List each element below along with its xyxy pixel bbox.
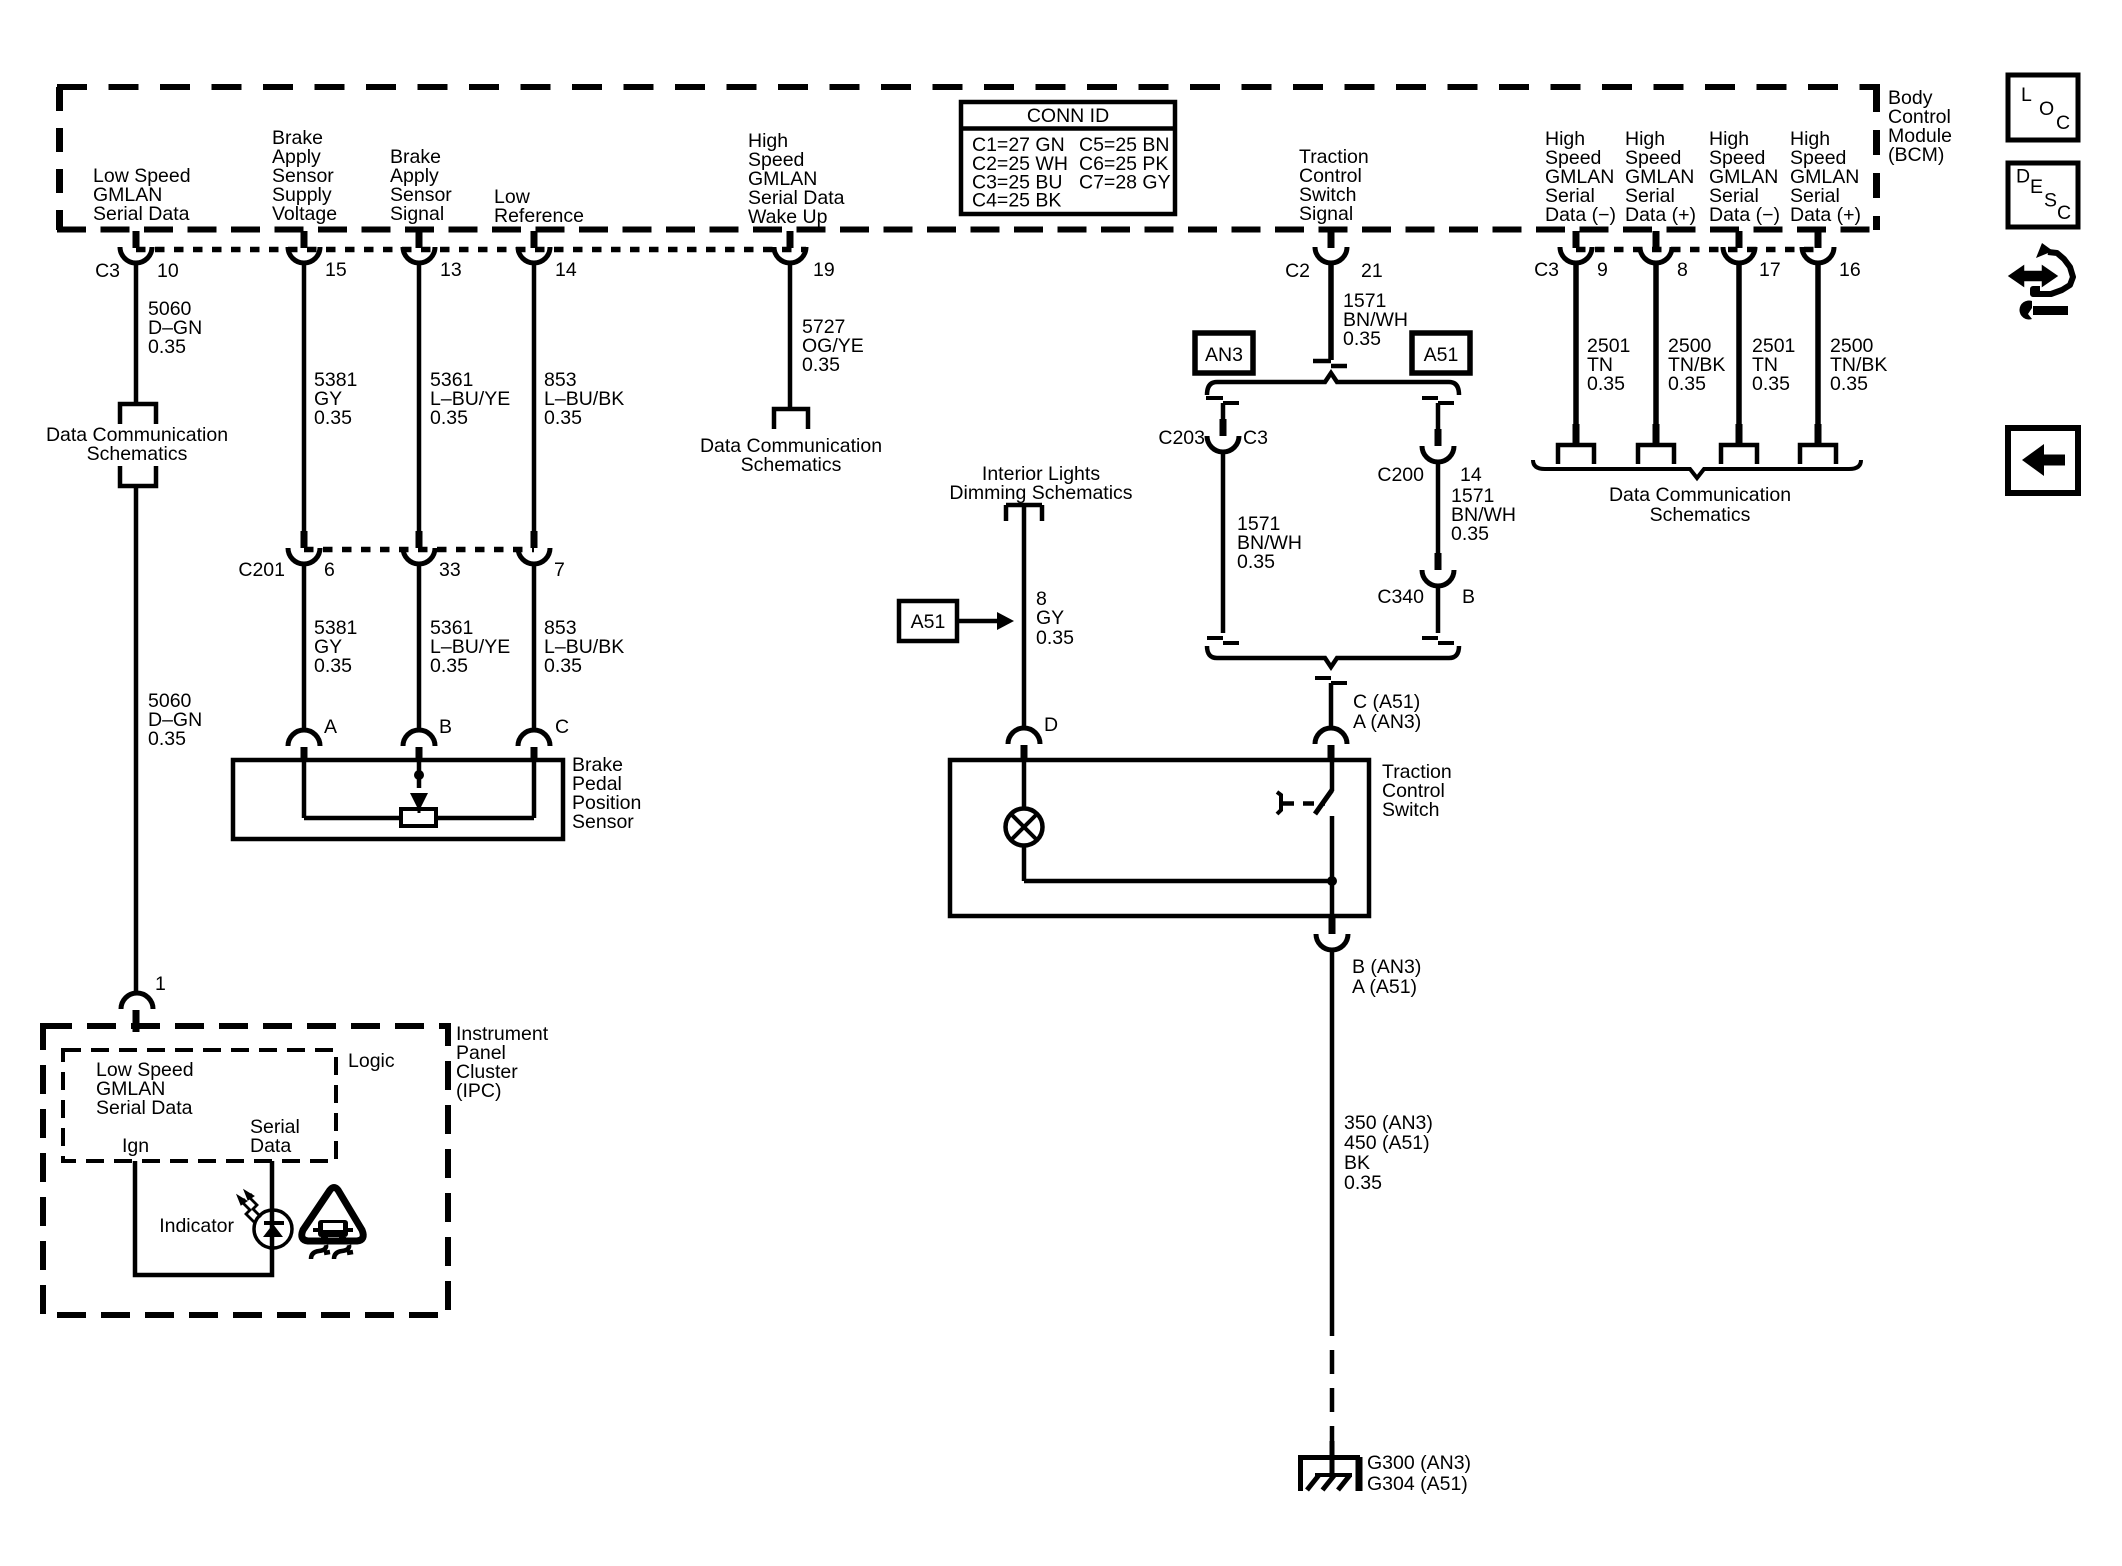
IPC logic text Low Speed GMLAN Serial Data <box>96 1059 194 1119</box>
BCM pin name: Low Reference <box>494 186 584 227</box>
svg-text:0.35: 0.35 <box>1451 523 1489 545</box>
connector pin C at BPP sensor <box>518 716 569 761</box>
wire label 5361 L-BU/YE 0.35 lower <box>430 617 510 677</box>
svg-text:Serial Data: Serial Data <box>93 203 190 225</box>
svg-text:0.35: 0.35 <box>430 407 468 429</box>
connector C201 dotted line <box>304 547 534 553</box>
svg-text:A51: A51 <box>911 611 946 633</box>
off-page bracket wire 16 <box>1800 445 1836 464</box>
TCS switch wire upper <box>1330 760 1335 791</box>
svg-text:0.35: 0.35 <box>148 336 186 358</box>
TCS switch actuator bracket <box>1277 792 1281 814</box>
ground G300 (AN3) / G304 (A51) <box>1298 1441 1471 1495</box>
connector pin 1 at IPC <box>121 973 166 1032</box>
Serial Data pin label <box>250 1116 300 1157</box>
connector C203 / C3 <box>1158 419 1268 452</box>
svg-text:B: B <box>439 716 452 738</box>
svg-text:S: S <box>2044 190 2057 212</box>
svg-text:BK: BK <box>1344 1152 1370 1174</box>
BCM pin name: Low Speed GMLAN Serial Data <box>93 165 191 225</box>
traction warning icon triangle <box>302 1188 363 1242</box>
svg-text:B (AN3): B (AN3) <box>1352 956 1421 978</box>
svg-text:0.35: 0.35 <box>544 655 582 677</box>
svg-text:Wake Up: Wake Up <box>748 206 828 228</box>
svg-text:0.35: 0.35 <box>430 655 468 677</box>
svg-text:Schematics: Schematics <box>1650 504 1751 526</box>
wire label 853 L-BU/BK 0.35 upper <box>544 369 624 429</box>
svg-text:0.35: 0.35 <box>802 354 840 376</box>
off-page bracket: Interior Lights Dimming <box>1006 505 1042 521</box>
svg-text:Signal: Signal <box>1299 203 1353 225</box>
traction warning icon skid marks <box>311 1245 353 1259</box>
traction warning icon car <box>313 1220 353 1244</box>
wire 9 terminal stub <box>1573 424 1580 446</box>
svg-text:A51: A51 <box>1424 344 1459 366</box>
svg-text:15: 15 <box>325 259 347 281</box>
connector pin D at traction control switch <box>1008 714 1058 762</box>
svg-text:10: 10 <box>157 260 179 282</box>
BCM pin name: High Speed GMLAN Serial Data (-) #2 <box>1709 128 1780 226</box>
wire 350/450 BK solid segment <box>1330 948 1335 1312</box>
splice brace lower (merge to switch) <box>1207 646 1459 667</box>
connector pin 14 at BCM <box>518 231 577 281</box>
wire label 5060 D-GN 0.35 upper <box>148 298 202 358</box>
connector pin C (A51) / A (AN3) <box>1315 691 1421 762</box>
svg-text:14: 14 <box>1460 464 1482 486</box>
BCM pin name: High Speed GMLAN Serial Data Wake Up <box>748 130 845 228</box>
svg-text:C: C <box>555 716 569 738</box>
wire 853 L-BU/BK lower segment <box>532 563 537 732</box>
wire end splice squiggle <box>1313 361 1347 366</box>
IPC name label <box>456 1023 549 1102</box>
svg-text:13: 13 <box>440 259 462 281</box>
svg-text:16: 16 <box>1839 259 1861 281</box>
wire label 2501 TN 0.35 (pin 9) <box>1587 335 1630 395</box>
svg-text:0.35: 0.35 <box>1036 627 1074 649</box>
svg-text:21: 21 <box>1361 260 1383 282</box>
wire 5381 GY upper segment <box>302 262 307 532</box>
connector pin 16 at BCM <box>1802 231 1861 281</box>
svg-text:0.35: 0.35 <box>314 655 352 677</box>
connector pin 8 at BCM <box>1640 231 1688 281</box>
svg-text:33: 33 <box>439 559 461 581</box>
svg-text:Data (+): Data (+) <box>1625 204 1696 226</box>
harness dotted line left section <box>136 247 806 253</box>
wire 5361 L-BU/YE upper segment <box>417 262 422 532</box>
svg-text:C340: C340 <box>1377 586 1424 608</box>
BCM pin name: High Speed GMLAN Serial Data (+) #1 <box>1625 128 1696 226</box>
svg-text:7: 7 <box>554 559 565 581</box>
wire 2501 TN (pin 9) <box>1573 262 1579 445</box>
back arrow icon box <box>2008 428 2078 493</box>
svg-text:C203: C203 <box>1158 427 1205 449</box>
connector pin 15 at BCM <box>288 231 347 281</box>
svg-text:C2: C2 <box>1285 260 1310 282</box>
svg-text:Indicator: Indicator <box>159 1215 234 1237</box>
svg-text:0.35: 0.35 <box>1344 1172 1382 1194</box>
BPP sensor wiper arrow <box>410 793 428 813</box>
TCS name label <box>1382 761 1452 821</box>
wire 5361 L-BU/YE lower segment <box>417 563 422 732</box>
wire 853 L-BU/BK upper segment <box>532 262 537 532</box>
TCS switch blade <box>1315 790 1332 814</box>
svg-text:14: 14 <box>555 259 577 281</box>
BCM pin name: High Speed GMLAN Serial Data (-) #1 <box>1545 128 1616 226</box>
connector pin 13 at BCM <box>403 231 462 281</box>
connector C3 pin 10 at BCM <box>95 231 179 282</box>
svg-text:0.35: 0.35 <box>544 407 582 429</box>
svg-text:G304 (A51): G304 (A51) <box>1367 1473 1468 1495</box>
svg-text:0.35: 0.35 <box>314 407 352 429</box>
A51 tag box <box>1412 333 1470 373</box>
right branch wire <box>1436 403 1441 429</box>
grouping brace data communication <box>1533 460 1861 478</box>
svg-text:Schematics: Schematics <box>741 454 842 476</box>
svg-text:D: D <box>1044 714 1058 736</box>
left branch wire to C203 <box>1221 403 1226 419</box>
svg-text:0.35: 0.35 <box>1343 328 1381 350</box>
svg-text:350 (AN3): 350 (AN3) <box>1344 1112 1433 1134</box>
svg-text:Data (+): Data (+) <box>1790 204 1861 226</box>
svg-text:(IPC): (IPC) <box>456 1080 502 1102</box>
svg-text:1: 1 <box>155 973 166 995</box>
svg-text:C3: C3 <box>1534 259 1559 281</box>
wire to traction control switch pin C/A <box>1329 683 1334 729</box>
BCM name label <box>1888 87 1952 166</box>
off-page bracket wire 8 <box>1638 445 1674 464</box>
svg-text:Logic: Logic <box>348 1050 395 1072</box>
connector pin A at BPP sensor <box>288 716 337 761</box>
svg-text:450 (A51): 450 (A51) <box>1344 1132 1430 1154</box>
wire below C340 <box>1436 584 1441 633</box>
connector C340 pin B <box>1377 553 1475 608</box>
svg-text:Dimming Schematics: Dimming Schematics <box>949 482 1132 504</box>
wire label 5381 GY 0.35 upper <box>314 369 357 429</box>
swap/adjust icon (double arrow with wrench) <box>2010 243 2073 320</box>
TCS internal bottom wire <box>1024 879 1332 884</box>
svg-text:O: O <box>2039 98 2054 120</box>
BCM pin name: Traction Control Switch Signal <box>1299 146 1369 225</box>
wire label 2500 TN/BK 0.35 (pin 16) <box>1830 335 1887 395</box>
svg-text:A (AN3): A (AN3) <box>1353 711 1421 733</box>
wire label 5381 GY 0.35 lower <box>314 617 357 677</box>
wire label 853 L-BU/BK 0.35 lower <box>544 617 624 677</box>
merge squiggle below lower brace <box>1315 678 1347 683</box>
wire 2500 TN/BK (pin 8) <box>1653 262 1659 445</box>
svg-text:Ign: Ign <box>122 1135 149 1157</box>
wire label 1571 BN/WH 0.35 (AN3 branch) <box>1237 513 1302 573</box>
svg-text:B: B <box>1462 586 1475 608</box>
IPC logic dashed box <box>63 1050 336 1161</box>
svg-text:Data (−): Data (−) <box>1709 204 1780 226</box>
DESC icon box <box>2008 163 2078 227</box>
svg-text:C: C <box>2056 112 2070 134</box>
off-page bracket: Data Communication Schematics (wire 19) <box>774 409 808 429</box>
svg-text:0.35: 0.35 <box>1752 373 1790 395</box>
svg-text:Voltage: Voltage <box>272 203 337 225</box>
indicator LED <box>254 1210 292 1248</box>
CONN ID table <box>961 102 1175 214</box>
svg-text:0.35: 0.35 <box>1587 373 1625 395</box>
off-page bracket top: Data Communication Schematics (left) <box>120 404 156 424</box>
wire 5727 OG/YE <box>788 262 793 409</box>
svg-text:17: 17 <box>1759 259 1781 281</box>
wire label 2500 TN/BK 0.35 (pin 8) <box>1668 335 1725 395</box>
svg-text:C4=25 BK: C4=25 BK <box>972 190 1061 212</box>
indicator wire above LED <box>270 1161 275 1250</box>
svg-text:CONN ID: CONN ID <box>1027 105 1109 127</box>
wire 1571 BN/WH (A51 branch) <box>1436 460 1441 553</box>
svg-text:Sensor: Sensor <box>572 811 634 833</box>
svg-text:C201: C201 <box>238 559 285 581</box>
connector C201 pin 33 <box>403 531 461 581</box>
svg-text:0.35: 0.35 <box>1668 373 1706 395</box>
wire label 5361 L-BU/YE 0.35 upper <box>430 369 510 429</box>
splice brace upper (fan-out to AN3 / A51) <box>1207 373 1459 395</box>
BPP sensor junction dot <box>414 770 424 780</box>
svg-text:0.35: 0.35 <box>1237 551 1275 573</box>
svg-text:Switch: Switch <box>1382 799 1439 821</box>
right branch hook <box>1422 398 1454 403</box>
wire label 350 (AN3) 450 (A51) BK 0.35 <box>1344 1112 1433 1194</box>
svg-text:C (A51): C (A51) <box>1353 691 1420 713</box>
svg-text:E: E <box>2030 176 2043 198</box>
wire label 1571 BN/WH 0.35 <box>1343 290 1408 350</box>
wire label 8 GY 0.35 <box>1036 588 1074 649</box>
wire 1571 BN/WH from BCM pin 21 <box>1328 262 1334 360</box>
svg-text:Data (−): Data (−) <box>1545 204 1616 226</box>
connector C3 pin 9 at BCM <box>1534 231 1608 281</box>
off-page bracket wire 17 <box>1721 445 1757 464</box>
LED emission arrows <box>237 1190 261 1222</box>
wire 8 terminal stub <box>1653 424 1660 446</box>
off-page label Data Communication Schematics (wire 19) <box>700 435 882 476</box>
off-page label Data Communication Schematics (right) <box>1609 484 1791 526</box>
Brake Pedal Position Sensor box <box>233 760 563 839</box>
connector C2 pin 21 at BCM <box>1285 231 1383 282</box>
svg-text:8: 8 <box>1677 259 1688 281</box>
wire 5060 D-GN lower segment <box>134 486 139 992</box>
svg-text:0.35: 0.35 <box>1830 373 1868 395</box>
wire label 5060 D-GN 0.35 lower <box>148 690 202 750</box>
BCM pin name: High Speed GMLAN Serial Data (+) #2 <box>1790 128 1861 226</box>
left branch hook <box>1206 398 1239 403</box>
harness dotted line right section <box>1576 247 1818 253</box>
BPP sensor internal wiring <box>304 760 534 818</box>
svg-text:C: C <box>2057 202 2071 224</box>
LOC icon box <box>2008 75 2078 140</box>
svg-text:A: A <box>324 716 337 738</box>
svg-text:Data: Data <box>250 1135 291 1157</box>
AN3 tag box <box>1195 333 1253 373</box>
wire 8 GY <box>1022 505 1027 729</box>
svg-text:0.35: 0.35 <box>148 728 186 750</box>
connector C201 pin 6 <box>238 531 334 581</box>
connector pin 19 at BCM <box>774 231 835 281</box>
TCS lamp wire lower <box>1022 846 1027 882</box>
connector C200 pin 14 <box>1377 429 1481 486</box>
connector pin B (AN3) / A (A51) <box>1316 916 1421 998</box>
svg-text:G300 (AN3): G300 (AN3) <box>1367 1452 1471 1474</box>
svg-text:Data Communication: Data Communication <box>1609 484 1791 506</box>
svg-text:C3: C3 <box>1243 427 1268 449</box>
connector C201 pin 7 <box>518 531 565 581</box>
TCS lamp wire upper <box>1022 760 1027 809</box>
wire label 2501 TN 0.35 (pin 17) <box>1752 335 1795 395</box>
wire 1571 BN/WH (AN3 branch) <box>1221 450 1226 633</box>
off-page label Data Communication Schematics (left) <box>46 424 228 465</box>
off-page bracket wire 9 <box>1558 445 1594 464</box>
wire 16 terminal stub <box>1815 424 1822 446</box>
TCS switch wire lower <box>1330 816 1335 916</box>
svg-text:D: D <box>2016 166 2030 188</box>
svg-text:C200: C200 <box>1377 464 1424 486</box>
Interior Lights Dimming label <box>949 463 1132 504</box>
A51 reference tag with arrow <box>899 601 1014 641</box>
svg-text:(BCM): (BCM) <box>1888 144 1944 166</box>
IPC indicator circuit box <box>135 1161 272 1275</box>
svg-text:19: 19 <box>813 259 835 281</box>
off-page bracket bottom (left) <box>120 466 156 486</box>
BCM pin name: Brake Apply Sensor Supply Voltage <box>272 127 337 225</box>
svg-text:AN3: AN3 <box>1205 344 1243 366</box>
TCS indicator lamp <box>1006 809 1043 846</box>
BPP sensor name label <box>572 754 641 833</box>
TCS switch actuator dashes <box>1283 801 1325 806</box>
wire 5381 GY lower segment <box>302 563 307 732</box>
wire 2501 TN (pin 17) <box>1736 262 1742 445</box>
wire 5060 D-GN upper segment <box>134 262 139 402</box>
BCM pin name: Brake Apply Sensor Signal <box>390 146 452 225</box>
right branch bottom squiggle <box>1422 638 1454 643</box>
svg-text:6: 6 <box>324 559 335 581</box>
TCS junction dot <box>1327 876 1337 886</box>
wire label 5727 OG/YE 0.35 <box>802 316 864 376</box>
left branch bottom squiggle <box>1207 638 1239 643</box>
connector pin 17 at BCM <box>1723 231 1781 281</box>
svg-text:C3: C3 <box>95 260 120 282</box>
Body Control Module (BCM) dashed box <box>57 87 1880 230</box>
connector pin B at BPP sensor <box>403 716 452 761</box>
Traction Control Switch box <box>950 760 1369 916</box>
wire 17 terminal stub <box>1736 424 1743 446</box>
svg-text:9: 9 <box>1597 259 1608 281</box>
Instrument Panel Cluster dashed box <box>43 1026 448 1315</box>
svg-text:Reference: Reference <box>494 205 584 227</box>
wire 2500 TN/BK (pin 16) <box>1815 262 1821 445</box>
svg-text:Schematics: Schematics <box>87 443 188 465</box>
svg-text:GY: GY <box>1036 607 1064 629</box>
wire label 1571 BN/WH 0.35 (A51 branch) <box>1451 485 1516 545</box>
svg-text:Signal: Signal <box>390 203 444 225</box>
svg-text:L: L <box>2021 84 2032 106</box>
BPP sensor potentiometer element <box>401 809 436 826</box>
svg-text:C7=28 GY: C7=28 GY <box>1079 172 1171 194</box>
svg-text:A (A51): A (A51) <box>1352 976 1417 998</box>
wire dashed segment to ground <box>1330 1312 1335 1452</box>
svg-text:Serial Data: Serial Data <box>96 1097 193 1119</box>
